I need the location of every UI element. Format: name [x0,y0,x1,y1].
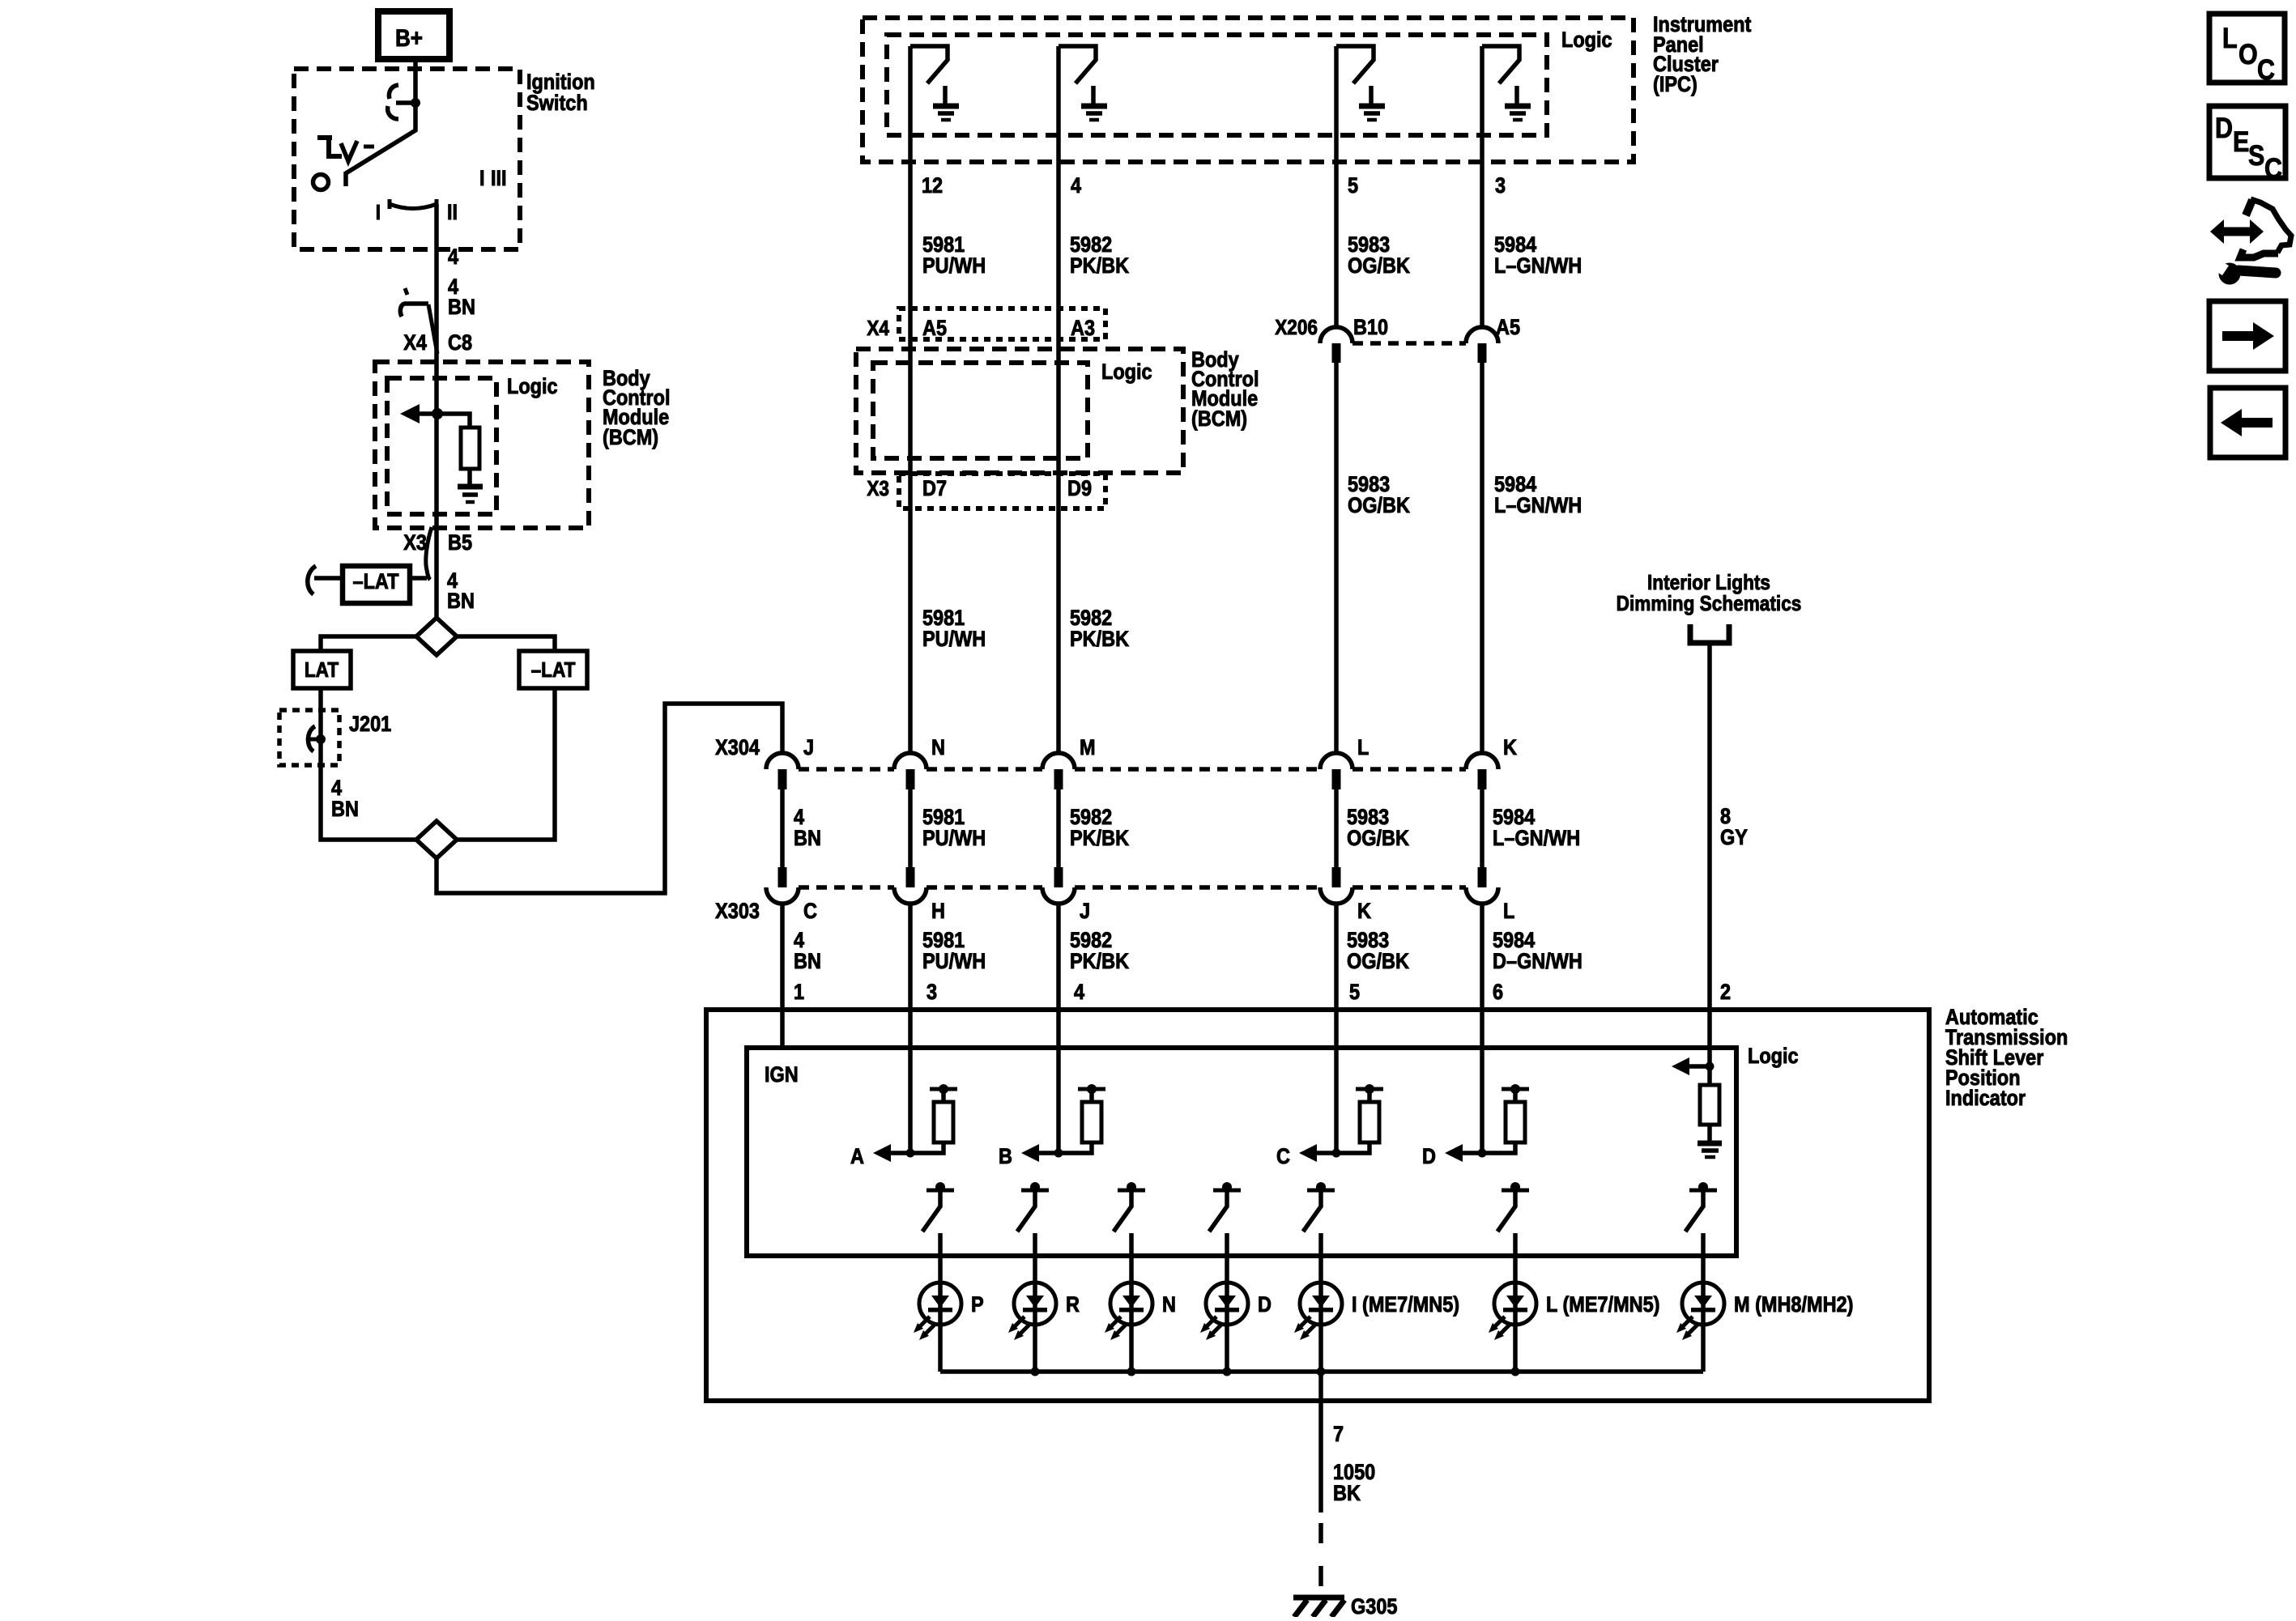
wire switch 4 to LED [1225,1233,1229,1372]
instrument panel cluster box [863,18,1634,162]
IPC driver switch 4 [1482,46,1519,83]
LED indicator L (ME7/MN5) [1494,1283,1536,1325]
svg-text:C: C [803,900,817,924]
wire -LAT to splice 2 [457,688,555,840]
svg-text:OG/BK: OG/BK [1348,254,1411,279]
svg-text:J201: J201 [349,713,391,737]
X304 pin L [1320,753,1352,769]
LED emission arrows [1298,1317,1310,1329]
dimming input branch [1707,1010,1712,1085]
icon LOC [2209,14,2285,83]
X303 pin J [1054,867,1063,887]
svg-text:O: O [2238,38,2258,70]
LED indicator N [1110,1283,1152,1325]
svg-text:L–GN/WH: L–GN/WH [1494,254,1582,279]
wire 8 GY [1707,645,1712,1010]
svg-text:Logic: Logic [507,375,558,399]
svg-text:PK/BK: PK/BK [1070,950,1130,974]
wire 5984 IPC to X206 [1480,178,1485,327]
wire IPC switch 1 [908,46,913,178]
hook splice [308,566,316,594]
ignition switch box [294,69,520,249]
wire 5984 to indicator [1480,904,1485,1153]
pull-up resistor C [1360,1102,1379,1142]
svg-text:J: J [803,736,814,760]
BCM pull-up resistor [437,414,470,428]
X304 pin K [1466,753,1498,769]
svg-text:12: 12 [922,174,943,198]
position sense branch A [873,1144,891,1162]
svg-text:L (ME7/MN5): L (ME7/MN5) [1546,1293,1659,1317]
svg-text:X303: X303 [715,900,760,924]
position switch 4 [1213,1189,1241,1193]
wire LAT to splice 2 [321,688,416,840]
svg-text:Switch: Switch [526,91,588,116]
svg-text:J: J [1080,900,1090,924]
svg-text:III: III [491,167,507,191]
IPC driver switch 2 [1059,46,1096,83]
position switch 3 [1118,1189,1145,1193]
X303 pin H [906,867,915,887]
LED emission arrows [1204,1317,1216,1329]
ignition switch terminal hooks [389,85,398,99]
wire 5982 to indicator [1056,904,1061,1153]
wire B+ to ignition switch [413,59,418,103]
svg-text:B10: B10 [1353,316,1388,340]
svg-text:A3: A3 [1071,317,1095,341]
off-page connector [1690,624,1729,643]
ignition switch ACC mark [317,136,342,159]
wire diamond to -LAT [457,636,555,651]
connector X4 C8 [405,288,407,295]
svg-text:IGN: IGN [765,1063,799,1087]
svg-text:X3: X3 [867,478,889,501]
svg-text:K: K [1357,900,1372,924]
svg-text:M: M [1080,736,1096,760]
svg-text:D7: D7 [922,477,947,501]
svg-text:BN: BN [331,798,359,822]
BCM box 2 [856,349,1183,473]
indicator logic box [747,1048,1736,1256]
svg-text:K: K [1503,736,1518,760]
svg-text:Logic: Logic [1101,360,1152,385]
svg-text:L–GN/WH: L–GN/WH [1494,494,1582,518]
svg-text:Logic: Logic [1748,1045,1799,1069]
bus junction [1223,1368,1232,1376]
dimming ground [1698,1141,1722,1147]
svg-text:I: I [479,167,485,191]
wire 5984 X206 to X304 [1480,363,1485,753]
svg-text:C8: C8 [448,331,472,355]
svg-text:A: A [850,1145,864,1169]
svg-text:B+: B+ [395,24,423,51]
svg-text:H: H [931,900,945,924]
wire splice to X304 pin J [437,704,782,893]
svg-text:(IPC): (IPC) [1653,73,1698,97]
wire bus to pin 7 [1318,1372,1323,1513]
svg-text:1: 1 [794,981,804,1005]
svg-text:5: 5 [1348,174,1358,198]
wire switch 1 to LED [938,1233,943,1372]
BCM box [375,362,589,528]
LED indicator D [1206,1283,1248,1325]
svg-text:M (MH8/MH2): M (MH8/MH2) [1734,1293,1853,1317]
svg-text:OG/BK: OG/BK [1347,827,1410,851]
svg-text:B5: B5 [448,531,472,555]
wire switch 3 to LED [1129,1233,1134,1372]
X303 pin C [778,867,787,887]
svg-text:I: I [376,202,381,225]
svg-text:A5: A5 [922,317,947,341]
ignition switch contact feed [396,100,415,105]
svg-text:E: E [2233,126,2249,157]
wire 5983 X206 to X304 [1334,363,1339,753]
svg-text:Indicator: Indicator [1945,1087,2026,1111]
ground G305 [1293,1595,1344,1601]
svg-text:C: C [2264,152,2282,184]
X304 pin M [1042,753,1075,769]
icon DESC [2209,106,2285,178]
X303 pin K [1332,867,1341,887]
LED emission arrows [1493,1317,1505,1329]
svg-text:–LAT: –LAT [353,570,399,594]
position sense branch D [1445,1144,1463,1162]
svg-text:X304: X304 [715,736,760,760]
svg-text:BN: BN [794,827,821,851]
svg-text:3: 3 [1495,174,1506,198]
IPC internal ground 2 [1091,86,1096,104]
wire IGN to indicator [780,904,785,1048]
terminal LAT [293,651,351,688]
wire ignition switch to BCM [434,204,439,618]
svg-text:GY: GY [1720,826,1748,850]
icon forward arrow [2209,301,2285,371]
svg-text:PK/BK: PK/BK [1070,254,1130,279]
svg-text:BN: BN [794,950,821,974]
svg-text:6: 6 [1493,981,1503,1005]
svg-text:Interior Lights: Interior Lights [1647,572,1770,595]
wire IPC switch 4 [1480,46,1485,178]
IPC internal ground 3 [1369,86,1374,104]
svg-text:B: B [999,1145,1012,1169]
wire switch 5 to LED [1318,1233,1323,1372]
svg-text:X4: X4 [403,331,427,355]
svg-text:X206: X206 [1275,317,1318,340]
dimming resistor [1700,1085,1719,1125]
LED indicator M (MH8/MH2) [1682,1283,1724,1325]
pull-up resistor A [934,1102,953,1142]
svg-text:N: N [1162,1293,1176,1317]
pull-up resistor B [1082,1102,1101,1142]
BCM ground [458,484,483,490]
svg-text:BN: BN [447,589,475,614]
junction [432,408,443,419]
wire 5982 IPC to BCM [1056,178,1061,753]
position switch 6 [1502,1189,1529,1193]
svg-text:A5: A5 [1496,316,1520,340]
svg-text:PU/WH: PU/WH [922,950,986,974]
LED emission arrows [1012,1317,1024,1329]
svg-text:D: D [1422,1145,1436,1169]
svg-text:I (ME7/MN5): I (ME7/MN5) [1352,1293,1459,1317]
LED indicator I (ME7/MN5) [1300,1283,1342,1325]
bus junction [1317,1368,1326,1376]
svg-text:(BCM): (BCM) [603,426,658,450]
icon service tool [2224,228,2250,236]
X304 pin N [894,753,926,769]
wire IPC switch 2 [1056,46,1061,178]
LED common bus [940,1369,1703,1374]
IPC internal ground 1 [943,86,948,104]
connector row X4 [899,308,1105,339]
wire 5983 to indicator [1334,904,1339,1153]
wire IPC switch 3 [1334,46,1339,178]
svg-text:5: 5 [1349,981,1360,1005]
svg-text:X4: X4 [867,317,889,341]
svg-text:PK/BK: PK/BK [1070,827,1130,851]
IPC driver switch 1 [910,46,948,83]
svg-text:P: P [971,1293,984,1317]
LED indicator P [919,1283,961,1325]
wire 5983 IPC to X206 [1334,178,1339,327]
svg-text:X3: X3 [403,531,427,555]
svg-text:PU/WH: PU/WH [922,827,986,851]
position switch 2 [1021,1189,1049,1193]
position sense branch C [1299,1144,1317,1162]
svg-text:Dimming Schematics: Dimming Schematics [1617,593,1802,616]
svg-text:OG/BK: OG/BK [1348,494,1411,518]
splice diamond 2 [416,821,457,858]
svg-text:BN: BN [448,296,475,320]
BCM logic box 2 [873,363,1088,458]
IPC logic box [887,35,1547,135]
svg-text:OG/BK: OG/BK [1347,950,1410,974]
wire to G305 [1318,1523,1323,1597]
ignition switch blade [346,103,415,186]
svg-text:2: 2 [1720,981,1731,1005]
LED emission arrows [918,1317,930,1329]
svg-text:PU/WH: PU/WH [922,628,986,652]
icon back arrow [2210,388,2285,457]
svg-text:L: L [2222,22,2238,53]
position switch 7 [1689,1189,1717,1193]
wire 5981 IPC to BCM [908,178,913,753]
pull-up resistor D [1506,1102,1525,1142]
svg-text:D9: D9 [1067,477,1092,501]
X303 pin L [1478,867,1487,887]
LED emission arrows [1680,1317,1693,1329]
svg-text:7: 7 [1333,1423,1344,1447]
svg-text:4: 4 [1071,174,1081,198]
IPC driver switch 3 [1336,46,1374,83]
svg-text:D: D [1258,1293,1272,1317]
bus junction [1127,1368,1136,1376]
LED emission arrows [1109,1317,1121,1329]
svg-text:PU/WH: PU/WH [922,254,986,279]
position switch 1 [926,1189,954,1193]
ignition switch OFF position [313,175,329,190]
automatic transmission shift lever position indicator box [706,1010,1929,1401]
wire switch 7 to LED [1701,1233,1706,1372]
wire -LAT to main [314,576,427,581]
svg-text:3: 3 [926,981,937,1005]
wire segments X304 to X303 [782,789,1482,867]
X304 pin J [766,753,799,769]
svg-text:BK: BK [1333,1482,1361,1506]
position switch 5 [1307,1189,1335,1193]
svg-text:C: C [2257,53,2275,85]
battery feed B+ [378,11,449,59]
svg-text:(BCM): (BCM) [1191,407,1247,432]
wire diamond to LAT [321,636,416,651]
wire switch 6 to LED [1513,1233,1518,1372]
svg-text:–LAT: –LAT [531,659,576,683]
svg-text:C: C [1276,1145,1290,1169]
svg-text:Logic: Logic [1561,28,1612,53]
svg-text:S: S [2248,139,2264,171]
BCM input arrow [400,404,420,423]
wire 5981 to indicator [908,904,913,1153]
svg-text:PK/BK: PK/BK [1070,628,1130,652]
svg-text:4: 4 [1074,981,1084,1005]
LED indicator R [1014,1283,1056,1325]
svg-text:D–GN/WH: D–GN/WH [1493,950,1582,974]
bus junction [1511,1368,1520,1376]
splice J201 [279,710,339,765]
svg-text:L: L [1503,900,1514,924]
svg-text:LAT: LAT [305,659,339,683]
terminal -LAT [519,651,587,688]
svg-text:L: L [1357,736,1369,760]
svg-text:N: N [931,736,945,760]
connector row X3 [899,474,1105,508]
IPC internal ground 4 [1514,86,1519,104]
BCM logic box [387,378,496,514]
wire switch 2 to LED [1033,1233,1037,1372]
svg-text:II: II [447,201,458,225]
ignition switch run arc [390,199,437,209]
svg-text:G305: G305 [1351,1595,1397,1617]
terminal -LAT [343,566,410,603]
splice diamond [416,618,457,655]
position sense branch B [1021,1144,1039,1162]
svg-text:D: D [2215,112,2233,143]
svg-text:4: 4 [448,245,458,270]
bus junction [1031,1368,1040,1376]
connector X3 B5 [426,527,432,580]
svg-text:L–GN/WH: L–GN/WH [1493,827,1580,851]
svg-text:R: R [1066,1293,1080,1317]
